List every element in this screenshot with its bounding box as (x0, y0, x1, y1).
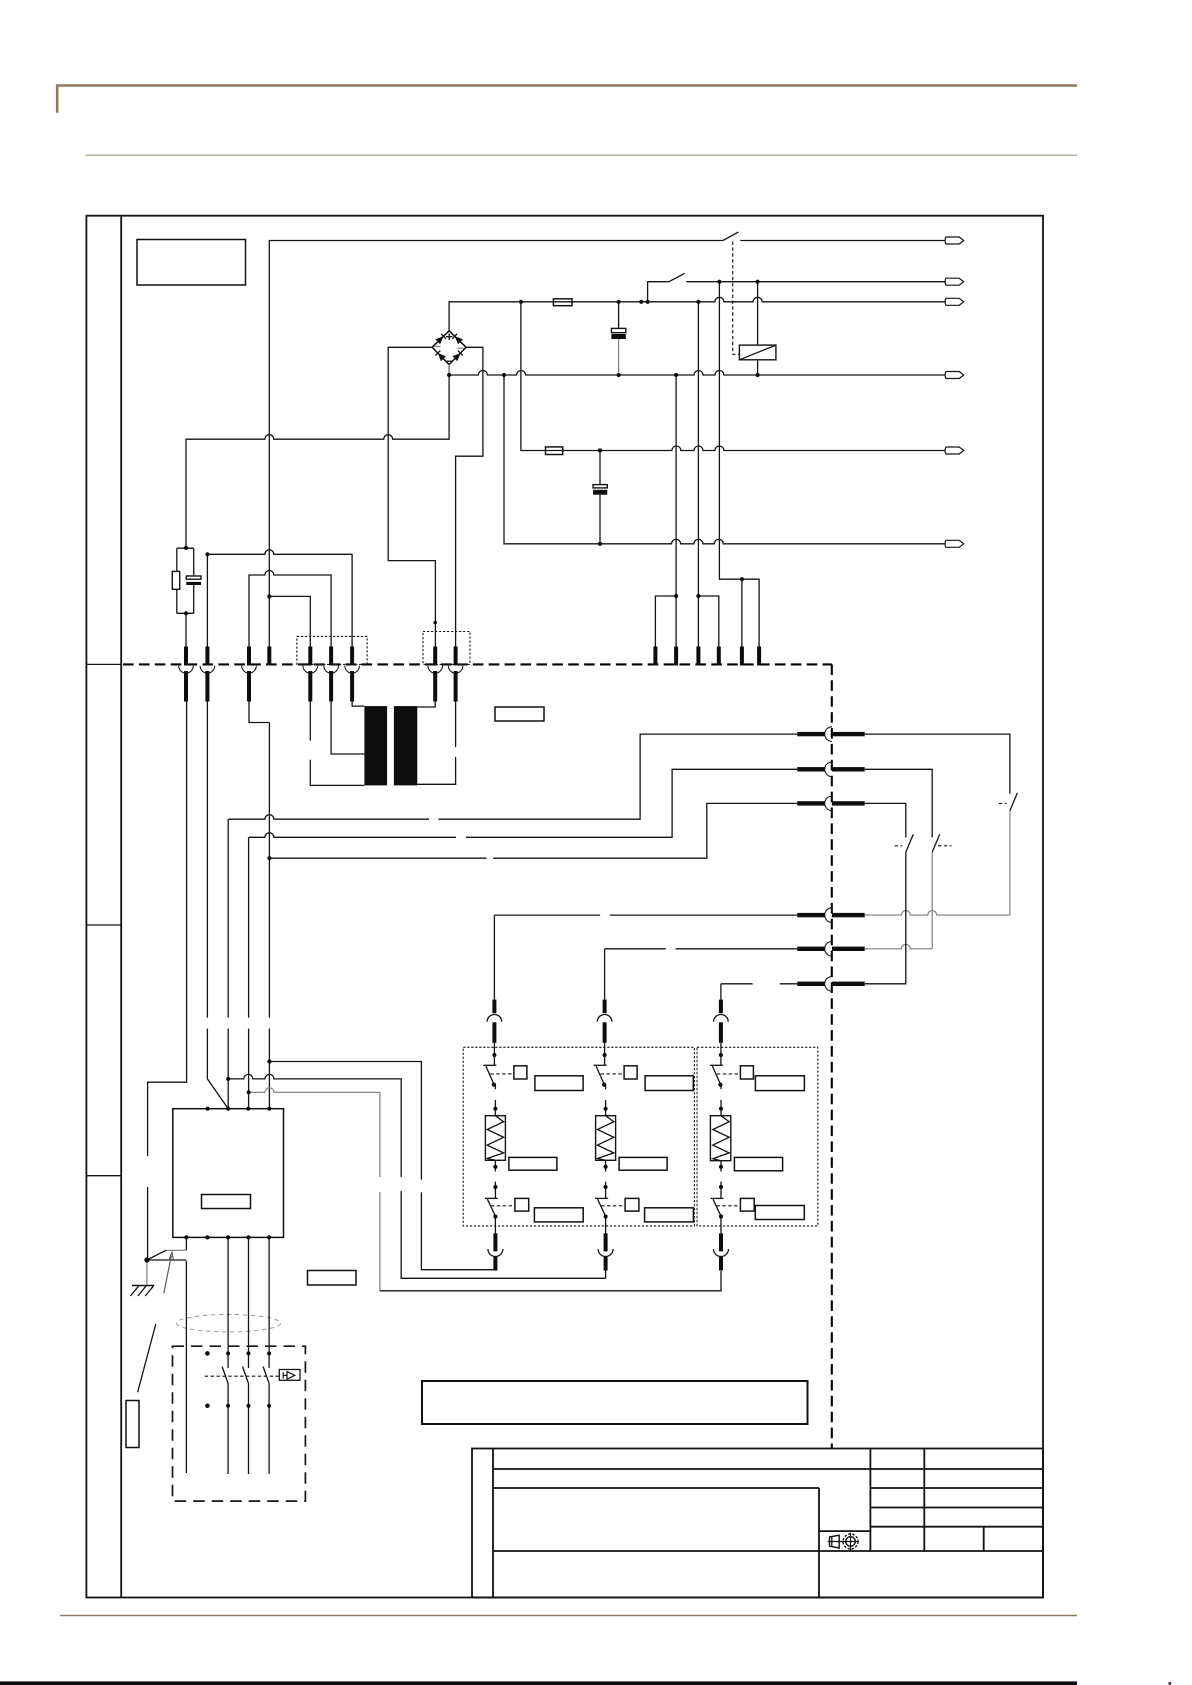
heater element E3 (710, 1116, 730, 1161)
wire pin8 to T1 primary tap (331, 702, 364, 755)
junction dots wire C (519, 300, 701, 304)
wire B riser and switch feed (648, 282, 669, 302)
junction dots wire D (447, 373, 760, 377)
header rule top bracket (57, 86, 1077, 113)
label box above title block (422, 1381, 808, 1424)
heater2 wire mid (605, 1160, 607, 1198)
capacitor C2 bottom lead (599, 495, 601, 544)
switch S2 blade (669, 273, 685, 281)
wire row4 to heater1 top (494, 915, 797, 1000)
terminal flag X1 (945, 237, 964, 244)
heater1 wire top (493, 1043, 495, 1066)
heater2 bottom plug connector (598, 1233, 613, 1270)
heater1 label element (509, 1157, 557, 1170)
title block vertical logo column (818, 1488, 820, 1598)
wire heater loop 3 (249, 1088, 380, 1093)
terminal flag X5 (945, 447, 964, 454)
ground stem gray (146, 1260, 148, 1286)
wire loop B to connector row2 (249, 769, 797, 837)
connector pin 6 full (324, 647, 339, 702)
heater3 label element (734, 1157, 782, 1170)
board connector row6 on dashed line (797, 977, 865, 992)
wire row3 to limit switch B1 (865, 803, 906, 837)
heater2 label element (619, 1157, 667, 1170)
wire row6 to heater3 top (721, 984, 797, 1000)
wire feeder pin10 jog (655, 596, 676, 647)
heater3 wire jog (719, 1085, 722, 1116)
title block row line 3 right (870, 1507, 1043, 1509)
heater1 wire bottom (494, 1217, 496, 1234)
wire W2 pin8 to pin10 (249, 571, 331, 647)
junction dots wire B (717, 280, 759, 284)
left column divider 2 (86, 924, 121, 926)
board connector row2 on dashed line (797, 762, 865, 777)
relay coil K1 (739, 345, 776, 360)
capacitor C1 plates (611, 328, 625, 339)
wire bridge AC left feeder (388, 347, 435, 646)
terminal flag X4 (945, 372, 964, 379)
connector pin 14 board edge (740, 647, 744, 666)
capacitor C2 top lead (599, 451, 601, 485)
wire W1 pin7 to pin9 (207, 550, 352, 647)
transformer T1 secondary winding (394, 706, 417, 785)
title block vertical small (983, 1527, 985, 1551)
heater3 bottom plug connector (714, 1233, 729, 1270)
footer page mark dot (1169, 1682, 1172, 1685)
footer rule tan (60, 1615, 1077, 1617)
drawing frame border (86, 216, 1043, 1598)
snubber lower stem to pin (185, 613, 187, 646)
wire row1 to limit switch B3 (865, 734, 1010, 794)
cable loop dashed ellipse (177, 1315, 281, 1332)
wire row5 to heater2 top (605, 949, 797, 1000)
heater group dotted box 2 (697, 1047, 818, 1226)
junction dots wires E F (598, 448, 602, 546)
frame inner left column line (120, 216, 122, 1598)
wire heater loop 2 (228, 1074, 605, 1278)
board connector row5 on dashed line (797, 942, 865, 957)
wire box to ground bend (185, 1237, 187, 1250)
wire bridge AC right feeder (456, 347, 483, 646)
board connector row1 on dashed line (797, 727, 865, 742)
connector pin 7 full (345, 647, 360, 702)
connector pin 8 full (428, 647, 443, 702)
heater3 wire mid (720, 1161, 722, 1199)
wire pin12 to T1 secondary top (417, 702, 435, 708)
wire vertical feeder A to box (227, 819, 229, 1108)
terminal box bottom left (173, 1109, 284, 1238)
title block row line 5 logo cell top (819, 1530, 870, 1532)
heater1 label lower (534, 1208, 583, 1222)
wire heater loop 1 (269, 1062, 495, 1270)
heater2 wire top (604, 1043, 606, 1066)
wire F bus (504, 375, 945, 544)
label box near transformer (495, 707, 544, 721)
wire heater loop 3 bottom run (380, 1271, 721, 1291)
dotted group box pins 9-11 (297, 636, 367, 664)
heater3 label lower (755, 1206, 804, 1220)
heater3 wire bottom (720, 1217, 722, 1234)
heater2 label upper (645, 1076, 693, 1091)
limit switch B3 blade (1010, 793, 1018, 811)
wire loop C to connector row3 (269, 803, 797, 858)
bridge rectifier D1 (432, 331, 466, 365)
wire feeder pins14-15 jog (719, 282, 759, 647)
wire B to terminal X2 (686, 281, 945, 283)
limit switch B1 actuator dashes (895, 845, 903, 847)
junction dots terminal box bottom (184, 1235, 271, 1239)
connector pin 13 board edge (717, 647, 721, 666)
junction dots terminal box top (206, 1107, 272, 1111)
heater2 wire bottom (605, 1217, 607, 1234)
main separator dashed line horizontal (123, 663, 832, 665)
wire pin7 to T1 primary bottom (310, 702, 364, 786)
breaker pole 1 (222, 1237, 228, 1474)
board connector row4 on dashed line (797, 908, 865, 923)
fuse F2 (546, 447, 563, 455)
wire row4 horizontal (865, 911, 1010, 916)
wire feeder pin13 jog (698, 596, 718, 647)
connector pin 10 board edge (653, 647, 657, 666)
left column divider 3 (86, 1175, 121, 1177)
relay actuator dashed link (733, 242, 740, 355)
heater1 wire jog (494, 1085, 496, 1116)
wire W3 pin link (269, 596, 310, 646)
title block vertical middle (869, 1449, 871, 1552)
capacitor C2 plates (593, 485, 607, 495)
wire feeder pin12 vertical (697, 302, 699, 647)
heater2 top plug connector (597, 1000, 612, 1043)
wire heater loop 3 vertical gray (379, 1092, 381, 1291)
projection symbol circle crosshair (828, 1533, 859, 1552)
capacitor C1 bottom lead (618, 339, 620, 375)
connector pin 2 full (200, 647, 215, 702)
heater3 thermostat lower (710, 1198, 754, 1216)
circuit breaker dashed enclosure Q1 (173, 1346, 306, 1501)
wire net L1 top with vertical feeder (269, 241, 723, 647)
wire B2 down to row5 (865, 852, 933, 949)
board connector row3 on dashed line (797, 796, 865, 811)
breaker release box (279, 1370, 300, 1381)
junction dots snubber area (184, 546, 272, 616)
title block vertical right (923, 1449, 925, 1552)
junction dots pin jogs (433, 577, 744, 624)
connector pin 11 board edge (674, 647, 678, 666)
heater2 thermostat lower (595, 1198, 639, 1216)
junction dots heater3 (718, 1053, 723, 1219)
heater1 label upper (535, 1076, 583, 1091)
wire DC link to snubber (186, 375, 449, 548)
breaker linkage dashes (205, 1375, 280, 1377)
connector pin 1 full (179, 647, 194, 702)
terminal flag X3 (945, 298, 964, 305)
wire loop A to connector row1 (228, 734, 797, 819)
limit switch B2 blade (932, 834, 940, 852)
wire B1 down to row6 (865, 852, 906, 984)
connector pin 12 board edge (696, 647, 700, 666)
snubber R1 C3 network (172, 548, 201, 613)
heater2 wire jog (604, 1085, 606, 1116)
dotted group box pins 12-13 (423, 632, 470, 665)
heater element E2 (596, 1116, 616, 1161)
capacitor C1 top lead (618, 302, 620, 329)
title block row line bottom left (493, 1550, 1043, 1552)
bridge DC minus stub (448, 365, 450, 376)
wire C bus (449, 297, 945, 331)
header rule second line (86, 154, 1078, 156)
limit switch B2 actuator dashes (938, 845, 952, 847)
heater2 label lower (645, 1208, 694, 1222)
annotation leader diagonal (138, 1324, 156, 1392)
wire vertical feeder B to box (248, 837, 250, 1108)
heater1 bottom plug connector (488, 1233, 503, 1270)
breaker pole 2 (243, 1237, 249, 1474)
connector pin 5 full (303, 647, 318, 702)
junction dot ground node (144, 1257, 149, 1262)
connector pin 3 full (242, 647, 257, 702)
wire pin13 to T1 secondary bottom (417, 702, 455, 785)
main separator dashed line vertical (831, 664, 833, 1448)
wire pin3 jog down (249, 702, 269, 723)
title block row line 2 left (493, 1487, 819, 1489)
left column divider 1 (86, 663, 121, 665)
heater1 thermostat upper (483, 1065, 527, 1084)
heater group dotted box 1 (463, 1047, 694, 1226)
heater2 thermostat upper (594, 1065, 638, 1084)
label box top-left (137, 240, 246, 286)
wire top to terminal X1 (740, 240, 945, 242)
wire B3 down to row4 (1009, 811, 1011, 915)
label box near ground (308, 1271, 357, 1286)
switch S1 blade on top wire (723, 232, 739, 240)
wire row2 to limit switch B2 (865, 769, 933, 837)
connector pin 4 upper only (267, 647, 271, 666)
wire riser left pin1 (148, 702, 187, 1260)
ground symbol PE (130, 1286, 154, 1297)
wire feeder pin11 vertical (675, 375, 677, 647)
wire riser left pin2 (207, 702, 228, 1109)
label box left margin vertical (126, 1401, 139, 1448)
heater3 label upper (755, 1076, 804, 1091)
breaker pole 3 (263, 1237, 269, 1474)
connector pin 9 full (448, 647, 463, 702)
limit switch B1 blade (906, 834, 914, 852)
title block outer frame (472, 1449, 1043, 1598)
heater2 wire stub to loop (605, 1271, 607, 1279)
connector pin 15 board edge (757, 647, 761, 666)
junction dots heater1 (492, 1053, 498, 1219)
annotation arrow (164, 1253, 174, 1294)
fuse F1 (553, 299, 572, 306)
footer bar black (0, 1681, 1077, 1685)
transformer T1 primary winding (364, 706, 387, 785)
wire vertical feeder C to box (268, 723, 270, 1109)
title block row line 1 (493, 1468, 1043, 1470)
title block narrow left column (492, 1449, 494, 1598)
heater1 wire mid (494, 1160, 496, 1198)
heater1 top plug connector (487, 1000, 502, 1043)
terminal flag X2 (945, 278, 964, 285)
limit switch B3 actuator dashes (999, 802, 1007, 804)
label box inside terminal box (202, 1195, 251, 1209)
heater3 top plug connector (714, 1000, 729, 1043)
terminal flag X6 (945, 540, 964, 547)
wire E bus (521, 302, 945, 451)
wire into breaker phase 0 (185, 1261, 187, 1473)
junction dots breaker terminals (205, 1351, 271, 1408)
heater element E1 (485, 1116, 505, 1161)
heater1 thermostat lower (485, 1198, 529, 1216)
wire D bus (449, 371, 945, 376)
projection symbol cone (830, 1535, 840, 1548)
heater3 wire top (720, 1043, 722, 1066)
junction dots left feeders (226, 856, 271, 1094)
wire pin9 to T1 primary top (352, 702, 364, 707)
heater3 thermostat upper (710, 1065, 754, 1084)
junction dots heater2 (602, 1053, 608, 1219)
relay K1 feed wire (757, 282, 759, 375)
title block row line 4 right (870, 1526, 1043, 1528)
title block row line 2 right (870, 1487, 1043, 1489)
